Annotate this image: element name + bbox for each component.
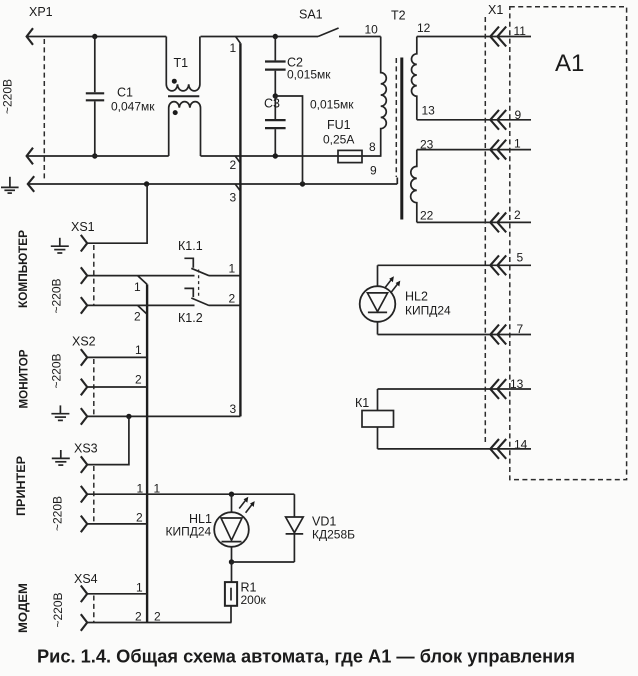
svg-text:~220В: ~220В xyxy=(51,592,65,627)
svg-text:HL2: HL2 xyxy=(405,290,428,304)
capacitor C2 xyxy=(265,37,331,97)
node HL1 bottom xyxy=(229,559,234,564)
svg-text:200к: 200к xyxy=(241,593,267,607)
~220V label at XS3 xyxy=(51,496,65,531)
wire XS2 pin2 to left bundle xyxy=(87,386,147,388)
label wire 8 xyxy=(369,140,376,154)
wire XS1 pin2 chamfer into left bundle xyxy=(138,305,148,314)
capacitor C1 xyxy=(86,37,155,157)
socket XS1 pin2 contact arrow xyxy=(81,297,87,314)
label wire 1 exit at K1.1 xyxy=(229,262,236,276)
socket XS4 dashed boundary xyxy=(93,596,95,623)
label wire 10 xyxy=(365,23,379,37)
svg-text:22: 22 xyxy=(420,209,434,223)
label wire 3 entry xyxy=(230,191,237,205)
label T2 pin 13 xyxy=(422,104,436,118)
svg-text:К1.1: К1.1 xyxy=(178,239,203,253)
socket XS1 ground contact arrow xyxy=(81,235,87,252)
svg-text:К1: К1 xyxy=(355,396,369,410)
svg-text:2: 2 xyxy=(135,373,142,387)
svg-text:1: 1 xyxy=(154,482,161,496)
wire 1 chamfer into right bundle xyxy=(236,37,241,44)
svg-text:1: 1 xyxy=(514,137,521,151)
wire XS1 ground to earth node xyxy=(87,184,147,243)
wire T2 pin 23 to X1 pin 1 xyxy=(417,149,531,151)
socket XS4 label xyxy=(74,572,98,586)
wire XS4 pin2 row to R1 xyxy=(87,622,231,624)
socket XS3 ground contact arrow xyxy=(81,456,87,473)
block A1 label xyxy=(555,50,584,77)
wire X1 pin 7 row xyxy=(378,334,532,336)
connector X1 contact pin 9 xyxy=(490,108,521,130)
transformer T1 winding 1 xyxy=(166,37,200,91)
node XS2/XS3 ground junction xyxy=(126,414,131,419)
label wire 2 right of bundle xyxy=(154,610,161,624)
wire HL1 bottom to VD1 xyxy=(232,561,295,563)
svg-text:1: 1 xyxy=(229,262,236,276)
socket XS4 pin1 contact arrow xyxy=(81,586,87,603)
label МОДЕМ xyxy=(16,583,30,633)
connector X1 contact pin 5 xyxy=(490,251,523,276)
svg-text:0,015мк: 0,015мк xyxy=(310,98,354,112)
svg-text:VD1: VD1 xyxy=(312,515,336,529)
connector X1 contact pin 7 xyxy=(490,322,523,344)
svg-text:~220В: ~220В xyxy=(50,278,64,313)
node ground row / C3 branch xyxy=(300,181,305,186)
socket XS2 pin1 contact arrow xyxy=(81,349,87,366)
svg-text:2: 2 xyxy=(230,158,237,172)
svg-text:ХS3: ХS3 xyxy=(74,442,98,456)
svg-text:9: 9 xyxy=(370,164,377,178)
svg-text:0,25А: 0,25А xyxy=(323,133,354,147)
label wire 2 exit at K1.2 xyxy=(229,292,236,306)
svg-text:~220В: ~220В xyxy=(1,79,15,114)
svg-text:1: 1 xyxy=(135,343,142,357)
svg-text:~220В: ~220В xyxy=(50,353,64,388)
socket XS3 label xyxy=(74,442,98,456)
socket XS2 dashed boundary xyxy=(93,359,95,417)
label T2 pin 22 xyxy=(420,209,434,223)
wire 3 exit row to XS2 ground xyxy=(87,415,240,417)
svg-text:К1.2: К1.2 xyxy=(178,311,203,325)
wire L row from T1 to SA1 xyxy=(201,36,319,38)
wire T2 pin 12 to X1 pin 11 xyxy=(417,36,531,38)
node at C3 bottom / fuse row xyxy=(273,153,278,158)
relay contacts mechanical link xyxy=(198,270,200,298)
svg-text:~220В: ~220В xyxy=(51,496,65,531)
wire XS1 pin1 chamfer into left bundle xyxy=(138,276,148,285)
relay contact K1.1 label xyxy=(178,239,203,253)
wire 2 chamfer into right bundle xyxy=(235,156,240,163)
node at C1 top xyxy=(92,34,97,39)
wire XS3 pin2 to left bundle xyxy=(87,523,147,525)
transformer T2 secondary winding 23-22 xyxy=(411,150,417,223)
transformer T2 secondary winding 12-13 xyxy=(411,37,416,120)
label ПРИНТЕР xyxy=(14,456,28,516)
node at C2/C3 junction xyxy=(273,93,278,98)
node at SA1/C2 junction xyxy=(273,34,278,39)
wire T2 pin 13 to X1 pin 9 xyxy=(417,119,531,121)
svg-text:2: 2 xyxy=(136,511,143,525)
label wire 2 entry xyxy=(230,158,237,172)
svg-text:Т1: Т1 xyxy=(174,56,189,70)
wire XS3 pin1 row to HL1/VD1 xyxy=(87,493,294,495)
svg-text:КД258Б: КД258Б xyxy=(312,528,355,542)
connector XP1 label xyxy=(29,5,53,19)
plug XP1 ground pin arrow xyxy=(28,176,34,192)
label КОМПЬЮТЕР xyxy=(16,230,30,308)
~220V label at XP1 xyxy=(1,79,15,114)
wire XS3 ground to XS2 ground node xyxy=(87,416,129,464)
svg-text:2: 2 xyxy=(229,292,236,306)
socket XS3 pin2 contact arrow xyxy=(81,516,87,533)
svg-text:3: 3 xyxy=(230,402,237,416)
ground symbol at XS2 xyxy=(51,405,69,420)
svg-text:5: 5 xyxy=(517,251,524,265)
label wire 2 left of bundle xyxy=(135,610,142,624)
ground symbol at XS3 xyxy=(52,450,70,465)
transformer T2 core xyxy=(400,58,403,220)
connector X1 dashed boundary xyxy=(484,17,486,445)
svg-text:ХS2: ХS2 xyxy=(72,335,96,349)
label wire 1 at XS1 xyxy=(134,280,141,294)
wire XS4 pin1 to left bundle xyxy=(87,593,147,595)
connector X1 contact pin 11 xyxy=(490,24,526,46)
svg-text:1: 1 xyxy=(136,581,143,595)
transformer T1 label xyxy=(174,56,189,70)
svg-text:12: 12 xyxy=(417,21,431,35)
label wire 1 at XS2 xyxy=(135,343,142,357)
wire N row from XP1 to T1 xyxy=(27,155,169,157)
svg-text:ХР1: ХР1 xyxy=(29,5,53,19)
svg-text:2: 2 xyxy=(134,310,141,324)
wire C3 midpoint branch to ground row xyxy=(275,96,302,184)
wire XS1 pin1 row to K1.1 xyxy=(87,275,194,277)
connector X1 contact pin 14 xyxy=(490,438,527,459)
svg-text:1: 1 xyxy=(137,482,144,496)
relay coil K1 xyxy=(355,389,394,449)
label wire 3 exit xyxy=(230,402,237,416)
svg-text:1: 1 xyxy=(230,41,237,55)
svg-text:0,015мк: 0,015мк xyxy=(287,68,331,82)
svg-text:Т2: Т2 xyxy=(391,9,406,23)
label T2 pin 23 xyxy=(420,138,434,152)
svg-text:Рис. 1.4. Общая схема автомата: Рис. 1.4. Общая схема автомата, где А1 —… xyxy=(37,647,575,667)
transformer T1 core xyxy=(168,95,199,97)
connector X1 contact pin 1 xyxy=(490,137,521,160)
relay contact K1.2 label xyxy=(178,311,203,325)
node at C1 bottom xyxy=(92,153,97,158)
wire 3 chamfer into right bundle xyxy=(235,184,240,191)
wire XS2 pin1 to left bundle xyxy=(87,356,147,358)
socket XS2 pin2 contact arrow xyxy=(81,379,87,396)
wire ground row xyxy=(28,178,398,185)
svg-text:МОНИТОР: МОНИТОР xyxy=(17,350,31,409)
label wire 1 at XS4 xyxy=(136,581,143,595)
svg-text:А1: А1 xyxy=(555,50,584,77)
node ground row / XS1 earth branch xyxy=(144,181,149,186)
svg-text:С1: С1 xyxy=(117,86,133,100)
connector X1 contact pin 13 xyxy=(490,377,523,399)
socket XS3 dashed boundary xyxy=(93,466,95,524)
wire N row from T1 to FU1 xyxy=(201,155,382,157)
svg-text:2: 2 xyxy=(154,610,161,624)
svg-text:8: 8 xyxy=(369,140,376,154)
diode VD1 xyxy=(286,494,356,562)
transformer T2 screen (dashed) xyxy=(395,58,397,177)
wire L row from XP1 to T1 xyxy=(27,36,167,38)
socket XS1 pin1 contact arrow xyxy=(81,267,87,284)
LED HL1 xyxy=(166,494,255,562)
label МОНИТОР xyxy=(17,350,31,409)
group line right bundle xyxy=(239,43,241,416)
label wire 1 right of bundle xyxy=(154,482,161,496)
node HL1 top xyxy=(229,492,234,497)
label wire 2 at XS3 xyxy=(136,511,143,525)
fuse FU1 xyxy=(323,118,362,163)
svg-text:1: 1 xyxy=(134,280,141,294)
svg-text:3: 3 xyxy=(230,191,237,205)
svg-text:13: 13 xyxy=(422,104,436,118)
wire X1 pin 14 row xyxy=(378,448,532,450)
svg-text:С3: С3 xyxy=(264,97,280,111)
resistor R1 xyxy=(225,562,267,623)
~220V label at XS1 xyxy=(50,278,64,313)
label wire 1 left of bundle xyxy=(137,482,144,496)
plug XP1 pin L arrow xyxy=(27,28,33,45)
svg-text:ПРИНТЕР: ПРИНТЕР xyxy=(14,456,28,516)
connector X1 label xyxy=(488,3,503,17)
svg-text:КОМПЬЮТЕР: КОМПЬЮТЕР xyxy=(16,230,30,308)
socket XS4 pin2 contact arrow xyxy=(81,614,87,631)
svg-text:Х1: Х1 xyxy=(488,3,503,17)
label wire 1 entry xyxy=(230,41,237,55)
group line left bundle xyxy=(146,284,148,622)
label T2 pin 12 xyxy=(417,21,431,35)
wire T2 pin 22 to X1 pin 2 xyxy=(417,221,531,223)
label wire 2 at XS2 xyxy=(135,373,142,387)
svg-text:КИПД24: КИПД24 xyxy=(405,304,451,318)
relay contact K1.2 xyxy=(184,288,240,305)
label wire 2 at XS1 xyxy=(134,310,141,324)
block A1 dashed box xyxy=(510,7,627,480)
socket XS3 pin1 contact arrow xyxy=(81,486,87,503)
socket XS1 label xyxy=(71,220,95,234)
figure caption xyxy=(37,647,575,667)
svg-text:КИПД24: КИПД24 xyxy=(166,525,212,539)
LED HL2 xyxy=(360,265,451,334)
connector X1 contact pin 2 xyxy=(490,208,521,232)
wire X1 pin 13 row xyxy=(378,388,532,390)
svg-text:МОДЕМ: МОДЕМ xyxy=(16,583,30,633)
connector XP1 dashed boundary xyxy=(43,39,45,179)
svg-text:9: 9 xyxy=(515,108,522,122)
relay contact K1.1 xyxy=(184,258,240,275)
svg-text:FU1: FU1 xyxy=(327,118,351,132)
capacitor C3 xyxy=(264,96,354,156)
svg-text:SA1: SA1 xyxy=(299,8,323,22)
ground symbol (mains earth) xyxy=(1,177,19,193)
transformer T2 primary winding xyxy=(381,37,387,157)
svg-text:ХS1: ХS1 xyxy=(71,220,95,234)
wire XS1 pin2 row to K1.2 xyxy=(87,304,194,306)
transformer T1 winding 2 xyxy=(169,102,201,156)
~220V label at XS4 xyxy=(51,592,65,627)
svg-text:ХS4: ХS4 xyxy=(74,572,98,586)
socket XS2 ground contact arrow xyxy=(81,408,87,425)
socket XS2 label xyxy=(72,335,96,349)
switch SA1 xyxy=(299,8,381,37)
transformer T2 label xyxy=(391,9,406,23)
~220V label at XS2 xyxy=(50,353,64,388)
ground symbol at XS1 xyxy=(51,238,69,253)
label wire 9 xyxy=(370,164,377,178)
wire X1 pin 5 row xyxy=(378,264,532,266)
svg-text:2: 2 xyxy=(135,610,142,624)
svg-text:11: 11 xyxy=(514,24,527,38)
svg-text:2: 2 xyxy=(514,208,521,222)
socket XS1 dashed boundary xyxy=(93,245,95,306)
svg-text:0,047мк: 0,047мк xyxy=(111,100,155,114)
svg-text:10: 10 xyxy=(365,23,379,37)
plug XP1 pin N arrow xyxy=(27,148,33,165)
